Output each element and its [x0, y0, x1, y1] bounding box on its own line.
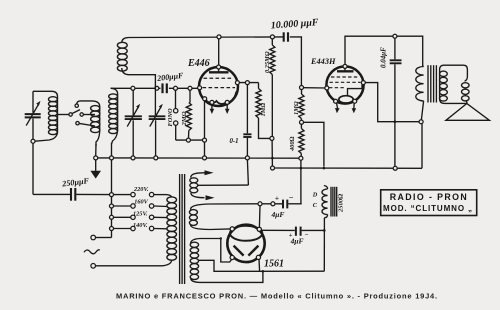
svg-text:E443H: E443H: [310, 57, 336, 66]
svg-text:0.04μF: 0.04μF: [380, 47, 388, 68]
wire L4 bottom to grid junction: [129, 75, 156, 88]
node A antenna/coil junction: [31, 139, 35, 143]
wire E443H screen tap: [365, 83, 419, 122]
filament arrow 2: [206, 195, 215, 200]
wire anode right down: [258, 259, 261, 271]
svg-text:220V.: 220V.: [133, 186, 149, 193]
inductor L1 antenna coil: [35, 91, 58, 141]
svg-text:2MΩ: 2MΩ: [181, 111, 188, 126]
wire antenna down lead: [32, 143, 34, 194]
resistor R4 1Mohm grid leak E443H: [293, 90, 304, 121]
node grid/C2 drop: [131, 86, 135, 90]
svg-text:4μF: 4μF: [290, 237, 304, 246]
node grid/2Mohm drop: [188, 86, 192, 90]
wire winding2 top to rectifier: [210, 203, 258, 205]
node rectifier output: [258, 202, 262, 206]
node R2/R3 junction: [270, 136, 274, 140]
wire C5 to E443H grid: [290, 37, 302, 86]
wire heater CT to ground bus: [247, 160, 248, 185]
wire rect node down to tube: [258, 206, 261, 228]
tube E443H: [310, 57, 365, 113]
svg-text:0-1: 0-1: [230, 138, 239, 145]
capacitor C9 4uF electrolytic: [261, 227, 324, 246]
wire E446 screen to R2: [239, 82, 258, 84]
wire W3 bottom: [200, 271, 263, 282]
capacitor C7 0.04uF: [380, 38, 402, 166]
wire L2 bottom to bus: [95, 144, 97, 156]
svg-text:160V: 160V: [134, 199, 148, 206]
wire grid line right of C4: [169, 87, 200, 89]
wire upper ground bus: [96, 157, 301, 159]
node bus cathode: [203, 156, 207, 160]
tube 1561 rectifier: [227, 225, 284, 270]
svg-text:1561: 1561: [264, 259, 284, 270]
node E446 plate drop: [217, 35, 221, 39]
wire switch top contact to L2: [77, 101, 92, 104]
voltage selector: [110, 186, 168, 237]
capacitor C4 200uuF: [156, 71, 185, 93]
node lower bus left: [271, 166, 275, 170]
svg-text:MARINO e FRANCESCO PRON. — Mod: MARINO e FRANCESCO PRON. — Modello « Cli…: [116, 291, 438, 300]
svg-text:−: −: [304, 231, 308, 239]
svg-text:140V.: 140V.: [133, 222, 148, 229]
switch SW1 wave band: [58, 104, 84, 125]
wire R5 down to filter: [300, 160, 302, 204]
svg-text:RADIO - PRON: RADIO - PRON: [390, 192, 468, 202]
svg-text:MOD. “CLITUMNO „: MOD. “CLITUMNO „: [383, 204, 473, 213]
capacitor C5 10000uuF coupling: [270, 17, 319, 42]
resistor R5 400ohm: [289, 124, 304, 156]
inductor L2: [91, 101, 100, 146]
capacitor C6 0.1uF: [230, 85, 252, 156]
variable capacitor C1 antenna tuning: [25, 91, 41, 141]
ground chassis arrow: [90, 160, 101, 179]
capacitor C8 4uF electrolytic: [262, 193, 302, 219]
node screen/C6 drop: [245, 81, 249, 85]
node bus L2: [94, 156, 98, 160]
wire grid line: [111, 87, 161, 89]
node E443H grid junction: [300, 86, 304, 90]
node R4/R5 junction: [300, 120, 304, 124]
resistor R2 1Mohm: [256, 83, 270, 139]
wire L3 bus down to selector: [111, 160, 113, 193]
wire E443H plate to output transformer: [345, 36, 423, 66]
node 0.04uF top: [393, 34, 397, 38]
inductor L4 plate coil: [117, 38, 128, 75]
node selector top: [110, 193, 114, 197]
filament arrow 1: [205, 170, 214, 175]
wire switch lower contact to L2: [79, 123, 95, 126]
wire R3 chain to buses: [271, 140, 273, 166]
AC mains terminals: [84, 235, 163, 268]
wire W3 top to anode: [200, 239, 232, 263]
node grid left of C4: [155, 86, 159, 90]
wire FONO/R1 bottom link: [176, 139, 205, 141]
choke 2500ohm field coil: [312, 186, 345, 218]
variable capacitor C3 tuning: [149, 86, 166, 156]
transformer T1 HV winding W3: [190, 239, 200, 283]
svg-text:+: +: [275, 193, 279, 202]
svg-text:400Ω: 400Ω: [289, 136, 296, 152]
node bus C2: [131, 156, 135, 160]
transformer T1 rectifier filament winding W2: [189, 204, 210, 230]
label box RADIO-PRON: [381, 190, 477, 216]
wire W2 bottom to 1561: [210, 228, 230, 231]
svg-text:0.25MΩ: 0.25MΩ: [264, 51, 271, 73]
svg-text:1MΩ: 1MΩ: [260, 103, 267, 117]
resistor R3 0.25Mohm: [264, 39, 275, 136]
transformer T1 core: [180, 174, 185, 284]
wire plate supply top left: [129, 36, 284, 39]
node primary bottom: [419, 120, 423, 124]
wire switch mid contact to L2: [83, 114, 95, 116]
wire L3 bottom to bus: [111, 143, 113, 156]
node cathode line join: [203, 138, 207, 142]
wire grid junction to E443H: [304, 87, 327, 89]
inductor L3 secondary: [109, 88, 118, 144]
transformer T2 core: [428, 65, 436, 102]
svg-text:1MΩ: 1MΩ: [293, 101, 300, 115]
svg-text:FONO: FONO: [167, 108, 174, 126]
transformer T1 primary: [163, 195, 177, 266]
resistor R1 2Mohm grid leak: [181, 90, 192, 140]
svg-text:−: −: [289, 193, 294, 202]
node bus C3: [154, 156, 158, 160]
svg-text:E446: E446: [187, 58, 210, 69]
wire lower B+ bus: [272, 167, 422, 169]
node C8 plus: [271, 202, 275, 206]
wire choke bottom down: [323, 218, 325, 271]
wire cathode bias to choke line: [304, 122, 324, 166]
wire E446 cathode down: [204, 101, 206, 138]
node bus L3: [110, 156, 114, 160]
speaker with transformer T2 secondary: [440, 65, 490, 120]
wire W3 center tap: [199, 260, 325, 271]
node bus end R5: [299, 156, 303, 160]
node lower bus speaker feed: [393, 166, 397, 170]
svg-text:4μF: 4μF: [271, 210, 285, 219]
jack FONO input: [167, 90, 178, 140]
op-amp substitute: tube E446: [187, 39, 239, 114]
node R1 bottom: [186, 138, 190, 142]
capacitor C10 250uuF: [33, 176, 109, 200]
transformer T2 output primary: [416, 66, 424, 120]
transformer T1 heater winding W1: [190, 173, 249, 198]
wire antenna top: [33, 90, 52, 92]
node 0.25Mohm top: [270, 35, 274, 39]
variable capacitor C2 tuning: [125, 90, 142, 156]
svg-text:2500Ω: 2500Ω: [338, 193, 345, 213]
node bus C6: [245, 156, 249, 160]
svg-text:125V.: 125V.: [133, 211, 148, 218]
node grid/FONO drop: [174, 86, 178, 90]
wire lower bus up to output: [421, 124, 423, 169]
svg-text:D: D: [312, 192, 318, 199]
junction dots: [220, 120, 397, 272]
